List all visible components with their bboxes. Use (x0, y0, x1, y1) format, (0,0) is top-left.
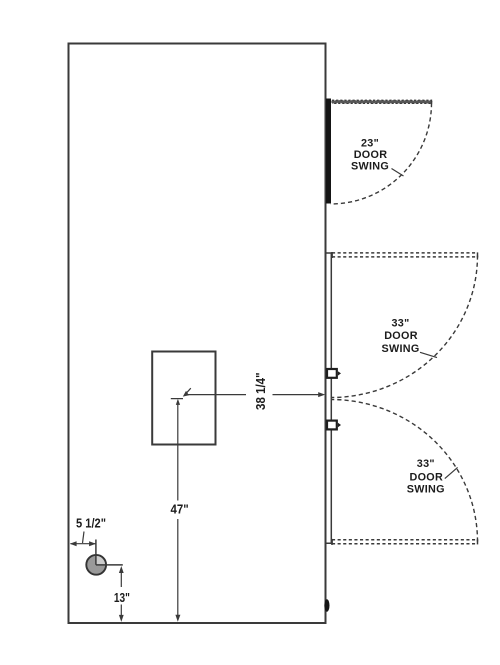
arrowhead left at wall (70, 541, 77, 546)
svg-text:33": 33" (391, 318, 409, 330)
door 1 open panel (dashed coil) (332, 100, 432, 105)
dimension line 47" (vertical to bottom wall) (177, 401, 179, 619)
svg-text:13": 13" (114, 591, 130, 605)
small arrow pointing up (vertical dim start) (176, 399, 180, 405)
svg-text:38 1/4": 38 1/4" (254, 372, 268, 410)
door 2 label leader line (420, 352, 437, 357)
dimension line 13" (vertical) (120, 568, 122, 620)
svg-text:DOOR: DOOR (354, 149, 388, 161)
svg-text:33": 33" (417, 458, 435, 470)
reference line from circle center to 13" dimension (96, 564, 123, 566)
door 1 swing arc (331, 103, 432, 204)
door 3 open panel (dashed) (332, 539, 478, 545)
latch block upper (meeting stile) (327, 369, 341, 378)
water line box (interior rectangle) (152, 352, 215, 445)
svg-text:SWING: SWING (407, 483, 445, 495)
arrowhead at bottom wall (175, 615, 180, 622)
water inlet circle (86, 555, 106, 575)
cabinet outline (main rectangle) (69, 44, 326, 624)
small arrow pointing to center (horizontal dim start) (183, 391, 189, 397)
dimension line 38 1/4" (horizontal to right wall) (187, 394, 320, 396)
door 3 label leader line (445, 467, 458, 478)
leader from 5 1/2" text (83, 532, 85, 544)
arrowhead up (119, 566, 124, 573)
lighter top-right quadrant of circle (96, 556, 105, 565)
svg-text:SWING: SWING (351, 161, 389, 173)
svg-text:47": 47" (171, 502, 189, 516)
arrowhead down (119, 615, 124, 622)
latch block lower (meeting stile) (327, 421, 341, 430)
door 3 swing arc (331, 400, 478, 542)
svg-text:DOOR: DOOR (384, 330, 418, 342)
center mark ticks at water connection point (171, 388, 191, 398)
dimension line 5 1/2" (71, 543, 96, 545)
extension line down to circle center (95, 540, 97, 565)
door 2 open panel (dashed) (332, 252, 478, 258)
door 1 closed panel (black bar) (326, 99, 331, 204)
svg-text:DOOR: DOOR (410, 472, 444, 484)
svg-text:SWING: SWING (381, 343, 419, 355)
svg-text:5 1/2": 5 1/2" (76, 516, 106, 530)
door 2 swing arc (331, 256, 478, 398)
arrowhead at wall (318, 392, 325, 397)
arrowhead right (89, 541, 96, 546)
svg-text:23": 23" (361, 137, 379, 149)
door 1 label leader line (392, 169, 404, 177)
door bumper on right wall (324, 599, 329, 611)
door frame line (right of wall, between double doors) (326, 253, 331, 544)
